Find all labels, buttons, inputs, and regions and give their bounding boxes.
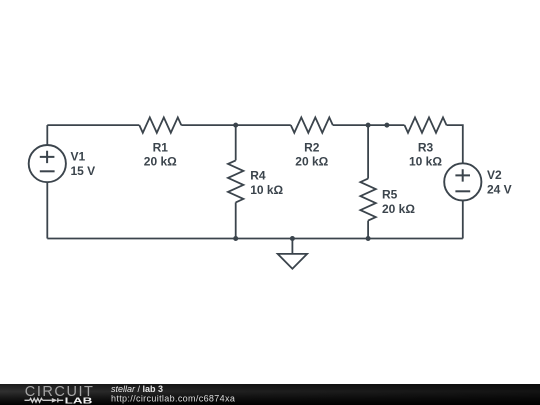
V1 minus sign xyxy=(40,170,55,172)
CircuitLab logo wire with resistor and diode xyxy=(25,398,64,402)
resistor R1 xyxy=(139,117,181,132)
svg-text:R2: R2 xyxy=(304,141,320,155)
node A dot (R1/R2/R4) xyxy=(233,123,238,128)
resistor R4 xyxy=(228,160,243,202)
svg-text:stellar / lab 3: stellar / lab 3 xyxy=(111,384,163,394)
svg-text:http://circuitlab.com/c6874xa: http://circuitlab.com/c6874xa xyxy=(111,393,235,403)
svg-text:R3: R3 xyxy=(418,141,434,155)
svg-text:V2: V2 xyxy=(487,168,502,182)
footer bar xyxy=(0,384,540,405)
wire left: V1 to bottom xyxy=(46,182,48,238)
svg-text:R5: R5 xyxy=(382,188,398,202)
svg-text:LAB: LAB xyxy=(65,396,93,405)
svg-text:R1: R1 xyxy=(153,141,169,155)
V1 plus sign xyxy=(40,151,55,163)
node dot R4 bottom xyxy=(233,236,238,241)
ground triangle xyxy=(278,254,307,269)
CircuitLab logo diode triangle xyxy=(52,398,58,403)
svg-text:15 V: 15 V xyxy=(71,164,96,178)
resistor R2 xyxy=(291,117,333,132)
svg-text:10 kΩ: 10 kΩ xyxy=(409,155,442,169)
resistor R5 xyxy=(360,179,375,221)
wire bottom rail xyxy=(47,238,463,240)
node C dot (wire junction) xyxy=(384,123,389,128)
ground stub xyxy=(291,239,293,254)
V2 plus sign xyxy=(455,169,470,181)
wire R5 top lead xyxy=(367,125,369,179)
wire top-right corner to V2 xyxy=(447,125,463,163)
resistor R3 xyxy=(405,117,447,132)
svg-text:R4: R4 xyxy=(250,168,266,182)
node B dot (R2/R5) xyxy=(366,123,371,128)
wire R4 bottom lead xyxy=(235,202,237,238)
wire top: R2 to R3 xyxy=(333,124,405,126)
wire top: V1 to R1 xyxy=(47,124,139,126)
svg-text:20 kΩ: 20 kΩ xyxy=(382,202,415,216)
wire right: V2 to bottom xyxy=(462,201,464,239)
svg-text:V1: V1 xyxy=(71,150,86,164)
wire left: top to V1 xyxy=(46,125,48,145)
svg-text:20 kΩ: 20 kΩ xyxy=(144,155,177,169)
wire R4 top lead xyxy=(235,125,237,160)
voltage source V1 circle xyxy=(29,145,66,182)
svg-text:24 V: 24 V xyxy=(487,182,512,196)
voltage source V2 circle xyxy=(444,163,481,200)
node dot R5 bottom xyxy=(366,236,371,241)
wire top: R1 to node A xyxy=(181,124,290,126)
svg-text:10 kΩ: 10 kΩ xyxy=(250,183,283,197)
svg-text:20 kΩ: 20 kΩ xyxy=(295,155,328,169)
wire R5 bottom lead xyxy=(367,221,369,239)
node dot ground xyxy=(290,236,295,241)
V2 minus sign xyxy=(455,190,470,192)
